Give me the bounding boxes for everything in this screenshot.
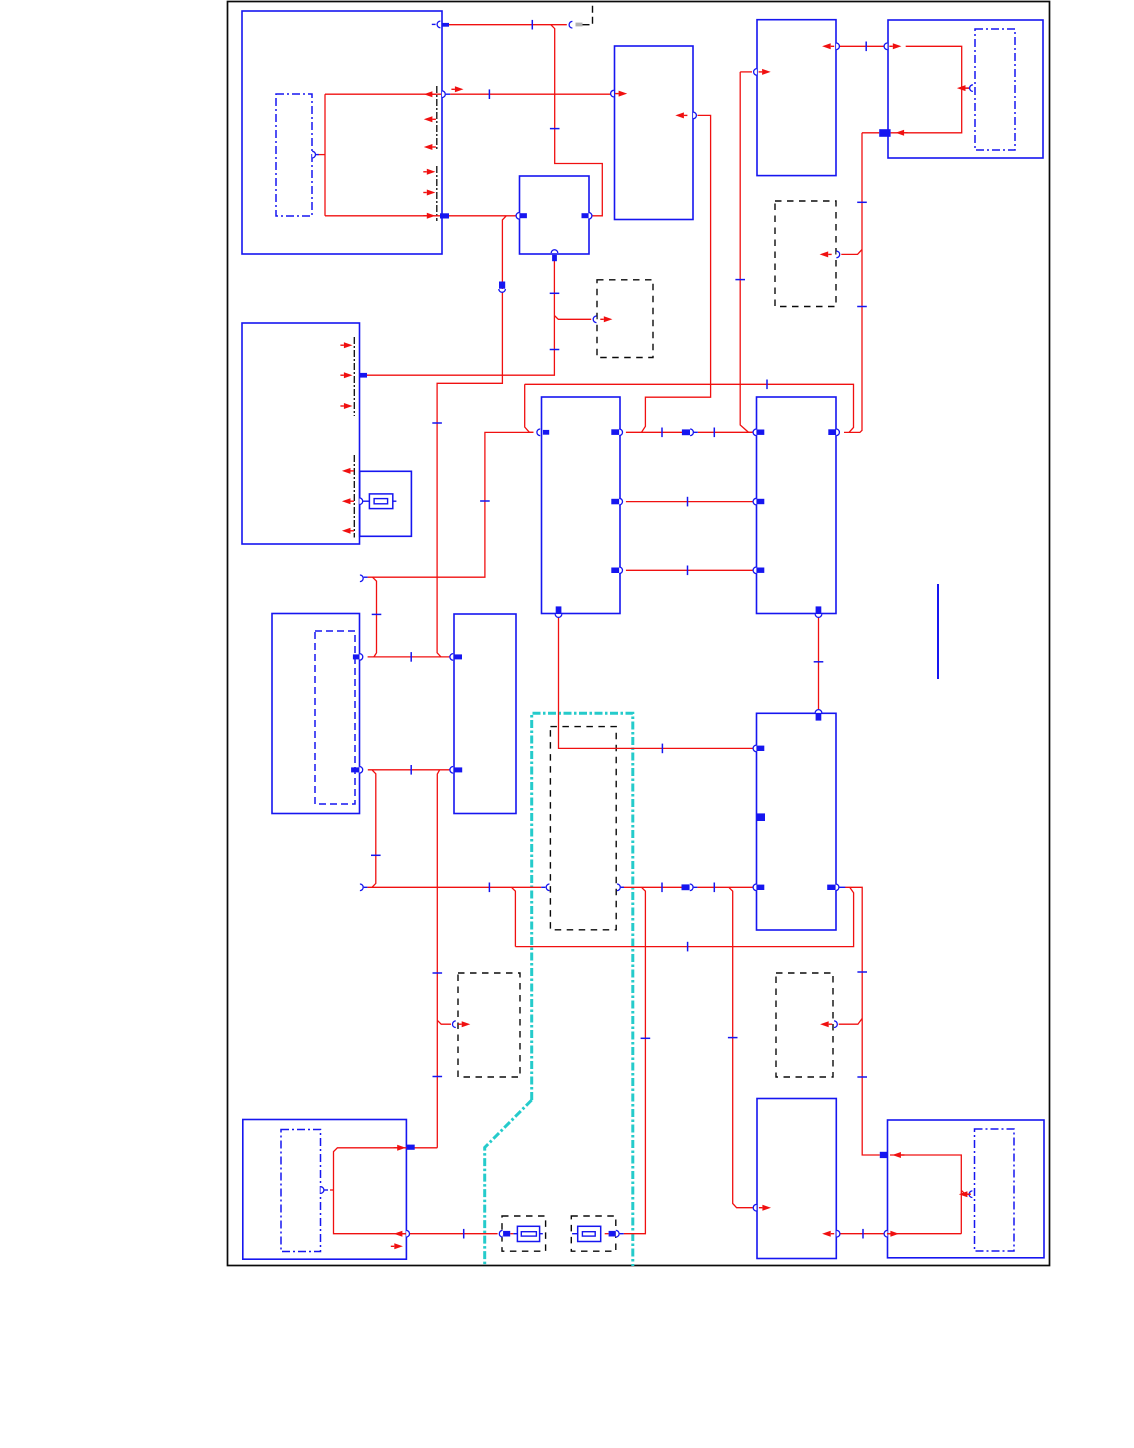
splice tick	[857, 971, 867, 973]
open connector (upper) near U9	[360, 575, 363, 582]
inline connector pair on U7-U8 wire	[682, 429, 690, 435]
splice tick	[433, 972, 443, 974]
wire: M1 pin stub	[319, 154, 326, 156]
flow arrow U5 row6 (left)	[342, 528, 351, 534]
pin: M1 right edge	[312, 151, 315, 158]
splice tick	[862, 1229, 864, 1239]
pin: U5 right row A	[360, 373, 368, 378]
inline connector pair after fuse F3	[609, 1231, 616, 1237]
pin: U11 top	[815, 710, 822, 713]
flow arrow U1 row2 (left)	[424, 116, 433, 122]
stray blue net segment (right side)	[937, 584, 939, 679]
flow arrow U1 row5 (right)	[427, 190, 436, 196]
flow arrow into X4	[462, 1021, 471, 1027]
connector shell X5 (dashed)	[776, 973, 833, 1077]
wire: drop to fuse row	[624, 887, 646, 1233]
pin: X3 left edge	[541, 886, 545, 888]
dash-dot boundary strip at U5 lower	[353, 455, 355, 538]
component box U6 (small top-middle)	[520, 176, 590, 254]
wire: U13 right pin to U14 lower pin	[839, 1233, 884, 1235]
dash-dot boundary strip at U1 lower	[436, 166, 438, 221]
wire: U3 left pin down to U8 pin	[740, 72, 753, 432]
wire: riser row2 down to open connector net	[372, 770, 376, 888]
pin: U10 left row 1	[450, 654, 453, 661]
pin: X4 left edge	[453, 1021, 456, 1028]
fuse F3 symbol	[572, 1233, 578, 1235]
pin: U4 left lower	[879, 129, 890, 137]
wire: M1 vertical link inside U1	[324, 94, 326, 216]
component box U4 (top-right unit)	[888, 20, 1043, 158]
wire: U7 left pin loop to open connector	[368, 432, 534, 577]
flow arrow on U1-U2 wire	[455, 86, 464, 92]
flow arrow U12 upper pin	[397, 1145, 406, 1151]
pin: U9 right row 1	[353, 654, 360, 659]
wire: M1 branch to U1 lower pin (inside U1)	[325, 215, 440, 217]
wire: branch to connector X4	[437, 1020, 451, 1024]
wire: M4 to U12 lower pin	[334, 1190, 407, 1234]
pin: M2 left edge	[970, 85, 973, 92]
wire: branch to connector X5	[839, 1018, 863, 1024]
splice tick	[814, 661, 824, 663]
wire: U8 bottom pin to U11 top pin	[818, 617, 820, 712]
wire: branch down to cross bus	[512, 887, 516, 946]
splice tick	[410, 765, 412, 775]
splice tick	[463, 1229, 465, 1239]
splice tick	[661, 883, 663, 893]
wire: U4 internal loop to lower-left pin	[891, 46, 962, 133]
connector shell X4 (dashed)	[458, 973, 520, 1077]
splice tick	[480, 500, 490, 502]
wire: mid bus drop to U7 left pin	[525, 384, 534, 432]
flow arrow into X2	[820, 251, 829, 257]
fuse F1 symbol inside holder	[363, 500, 369, 502]
wire: U1 pin to feed terminal	[449, 24, 567, 26]
connector shell X2 (dashed)	[775, 201, 836, 307]
wire: M4 to U12 upper pin	[334, 1148, 438, 1190]
wire: riser open-connector to U9/U10 net	[373, 577, 377, 657]
splice tick	[641, 1037, 651, 1039]
pin: U1 mid-right (to U2)	[442, 91, 445, 98]
wire: fuse F3 inline red stub	[605, 1233, 609, 1235]
pin: U1 bottom-right (to U6)	[440, 213, 449, 218]
splice tick	[687, 942, 689, 952]
wire: U9 pin to U10 pin row 1	[368, 656, 450, 658]
fuse shell X7 (dashed)	[571, 1216, 616, 1251]
flow arrow into U2	[619, 91, 628, 97]
pin: U13 left	[753, 1204, 756, 1211]
component box U11 (mid-right)	[757, 713, 837, 930]
inline connector pair before fuse F2	[499, 1230, 502, 1237]
flow arrow into U13	[762, 1205, 771, 1211]
wire: branch to connector X1	[554, 316, 591, 320]
wire: fuse F2 inline red stub	[510, 1233, 513, 1235]
splice tick	[661, 428, 663, 438]
wire: U1 lower pin to U6 left pin	[449, 215, 518, 217]
connector shell X3 (dashed tall)	[550, 727, 616, 930]
component box U8 (center-right)	[757, 397, 837, 614]
pin: U8 bottom	[816, 606, 822, 613]
flow arrow U1 row3 (left)	[424, 144, 433, 150]
splice tick	[372, 613, 382, 615]
component box U10 (mid-center)	[454, 614, 516, 814]
wire: U7-U8 link row 2	[626, 501, 753, 503]
splice tick	[433, 1076, 443, 1078]
wire: U6 bottom pin down then left to U5 pin	[367, 261, 554, 375]
pin: U6 left	[516, 213, 519, 220]
pin: U1 top-right (to feed)	[432, 23, 436, 25]
wire: U2 right pin down to center net	[642, 115, 711, 432]
wire: X3 right half to inline connector	[621, 886, 682, 888]
component box U7 (center-left)	[542, 397, 621, 614]
pin: U7 right row 1	[611, 429, 619, 435]
flow arrow out of U2	[675, 112, 684, 118]
pin: U10 left row 2	[450, 767, 453, 774]
open connector (lower) near U9	[360, 884, 363, 891]
splice tick	[488, 89, 490, 99]
pin: U14 left lower	[884, 1230, 887, 1237]
connector terminal at feed	[569, 21, 572, 28]
splice tick	[661, 744, 663, 754]
splice tick	[728, 1037, 738, 1039]
splice tick	[550, 292, 560, 294]
pin: U7 bottom	[556, 606, 562, 613]
flow arrow U5 row5 (left)	[342, 498, 351, 504]
flow arrow into U14 upper	[892, 1152, 901, 1158]
component box U12 (bottom-left)	[243, 1120, 407, 1260]
grey terminal lug	[576, 23, 583, 27]
wire: U3 right pin to U4 left pin	[838, 45, 884, 47]
drawing border frame	[228, 2, 1050, 1266]
pin: U3 left	[754, 69, 757, 76]
dashed sub-module M4 inside U12	[281, 1130, 321, 1252]
flow arrow into U4	[893, 43, 902, 49]
pin: M5 left edge	[969, 1191, 972, 1198]
splice tick	[432, 422, 442, 424]
pin: U8 left row 2	[753, 498, 756, 505]
dash-dot boundary strip at U5 upper	[353, 337, 355, 416]
component box U13 (bottom-center-right)	[757, 1099, 836, 1259]
wire: U4 lower-left pin out to drop	[862, 132, 879, 134]
wire: U7 bottom pin to U11 left pin	[559, 617, 754, 749]
wire: U3 left pin stub	[740, 71, 752, 73]
pin: U12 lower right	[406, 1230, 409, 1237]
splice tick	[550, 128, 560, 130]
flow arrow at M5 stub	[959, 1191, 968, 1197]
dashed sub-module M3 inside U9	[315, 631, 355, 804]
component box U5 (left unit)	[242, 323, 360, 544]
wire: U1 upper pin to U2 left pin	[450, 93, 610, 95]
dashed sub-module M1 inside U1	[276, 94, 312, 216]
wire: branch to M5 pin	[961, 1190, 969, 1194]
splice tick	[687, 497, 689, 507]
splice tick	[687, 566, 689, 576]
flow arrow at M2 stub	[957, 85, 966, 91]
cyan harness route (right/top)	[532, 713, 633, 1266]
component box U14 (bottom-right)	[888, 1120, 1045, 1258]
pin: U2 right	[693, 112, 696, 119]
wire: U14 pin loop inside	[890, 1155, 961, 1234]
wire: U11 right pin long drop to U14 pin	[845, 887, 880, 1155]
flow arrow U1 row6 (right)	[427, 213, 436, 219]
wire: cross bus to U11 right pin	[515, 887, 853, 946]
wire: U7-U8 link row 3	[626, 569, 753, 571]
wire: U14 lower pin inside link	[888, 1233, 961, 1235]
wire: M4 pin stub	[330, 1189, 334, 1191]
pin: X5 right edge	[834, 1021, 837, 1028]
wire: U7 right pin to inline connector	[626, 431, 682, 433]
splice tick	[735, 279, 745, 281]
pin: U7 right row 2	[611, 499, 619, 505]
pin: U2 left	[611, 90, 614, 97]
pin: U8 left row 1	[753, 429, 756, 436]
wire: open connector to X3 left half	[367, 886, 541, 888]
flow arrow U1 row4 (right)	[427, 169, 436, 175]
flow arrow into X1	[604, 316, 613, 322]
flow arrow into U14 lower	[890, 1231, 899, 1237]
flow arrow out of U4	[896, 130, 905, 136]
flow arrow into X5	[820, 1021, 829, 1027]
cyan harness route (left leg)	[485, 1100, 532, 1266]
wire: stub to M2 pin	[962, 87, 967, 89]
pin: U6 right	[582, 213, 589, 218]
flow arrow out of U13	[822, 1231, 831, 1237]
component box U1 (top-left control unit)	[242, 11, 442, 254]
wire: M1 branch to U1 upper pin (inside U1)	[325, 93, 441, 95]
pin: U6 bottom	[551, 250, 558, 253]
flow arrow U5 row4 (left)	[342, 468, 351, 474]
pin: U9 right row 2	[351, 767, 359, 772]
flow arrow U5 row2 (right)	[344, 372, 353, 378]
component box U9 (mid-left)	[272, 614, 360, 814]
pin: U8 left row 3	[753, 567, 756, 574]
component box U2 (top-middle relay)	[615, 46, 694, 220]
inline connector on branch wire (mid)	[499, 282, 505, 289]
dashed sub-module M5 inside U14	[975, 1129, 1015, 1251]
splice tick	[766, 380, 768, 390]
pin: U11 left row 2	[753, 884, 756, 891]
splice tick	[371, 854, 381, 856]
wire: branch to connector X2	[841, 250, 862, 255]
dashed sub-module M2 inside U4	[975, 29, 1015, 150]
pin: connector X2 right edge	[836, 251, 839, 258]
wire: long drop to U12 pin	[437, 770, 439, 1148]
wire: inline connector to U8 left pin	[698, 431, 753, 433]
connector shell X1 (dashed)	[597, 280, 653, 358]
wire: U9 pin to U10 pin row 2	[368, 769, 450, 771]
pin: M4 right edge	[321, 1187, 324, 1194]
splice tick	[550, 349, 560, 351]
flow arrow U12 spare	[394, 1243, 403, 1249]
flow arrow into U3	[762, 69, 771, 75]
pin: U12 upper right	[406, 1145, 414, 1150]
pin: connector X1 left edge	[593, 316, 596, 323]
wire: branch from U6 wire down to U9/U10 net	[437, 216, 506, 657]
pin: U14 left upper	[880, 1152, 888, 1158]
wire: drop to U13 left pin	[729, 887, 753, 1207]
wire: feed branch down to U6 right pin	[551, 25, 603, 216]
pin: U11 left row 1	[753, 745, 756, 752]
wire: mid bus to U8 right pin	[525, 384, 854, 432]
pin: U7 right row 3	[611, 568, 619, 574]
dash-dot boundary strip at U1 upper	[436, 86, 438, 151]
splice tick	[857, 1076, 867, 1078]
pin: U11 right	[827, 885, 836, 890]
splice tick	[488, 883, 490, 893]
pin: U4 left upper	[884, 43, 887, 50]
component box U3 (top relay)	[757, 20, 836, 176]
flow arrow U5 row1 (right)	[344, 342, 353, 348]
flow arrow U12 lower pin	[394, 1231, 403, 1237]
wire: U12 lower pin to fuse F2	[410, 1233, 498, 1235]
flow arrow U1 row1 (left)	[424, 91, 433, 97]
splice tick	[865, 42, 867, 52]
fuse holder box F1	[360, 471, 412, 536]
pin: U7 left	[537, 429, 540, 436]
splice tick	[713, 428, 715, 438]
splice tick	[410, 652, 412, 662]
stub pin on U11 left edge	[757, 813, 765, 821]
wire: inline connector to U11 left pin	[697, 886, 753, 888]
inline connector pair on X3-U11 wire	[682, 884, 690, 890]
splice tick	[857, 306, 867, 308]
splice tick	[713, 883, 715, 893]
pin: U3 right	[836, 43, 839, 50]
splice tick	[857, 201, 867, 203]
flow arrow out of U3	[822, 43, 831, 49]
pin: X3 right edge	[617, 884, 620, 891]
flow arrow U5 row3 (right)	[344, 403, 353, 409]
splice tick on feed wire	[531, 20, 533, 30]
pin: U8 right	[828, 429, 836, 435]
pin: U13 right	[837, 1230, 840, 1237]
battery feed dashed wire from border	[583, 3, 593, 25]
fuse shell X6 (dashed)	[502, 1216, 546, 1251]
fuse F2 symbol	[513, 1233, 517, 1235]
pin: U5 right row B (to fuse F1)	[359, 498, 362, 505]
wire: long drop to U8 right pin	[844, 133, 862, 433]
